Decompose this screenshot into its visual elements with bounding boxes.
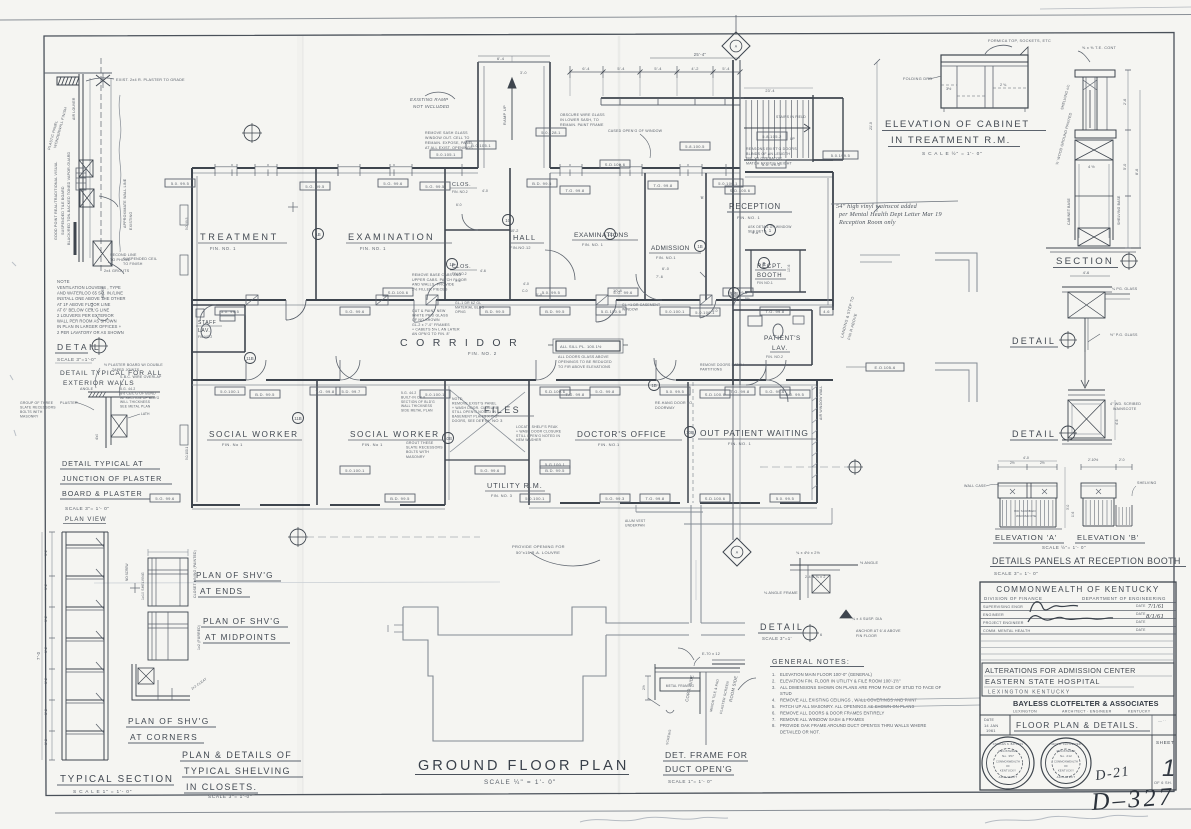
svg-text:DATE: DATE [1136,604,1146,608]
svg-text:REMAIN. PAINT FRAME: REMAIN. PAINT FRAME [560,123,604,127]
svg-text:PLAN OF SHV'G: PLAN OF SHV'G [196,571,274,580]
svg-text:1'-2: 1'-2 [44,584,48,590]
svg-text:½ ANGLE: ½ ANGLE [860,561,879,565]
svg-text:INSTALL ONE ABOVE THE OTHER: INSTALL ONE ABOVE THE OTHER [57,296,126,301]
svg-text:WALL PER ROOM AS SHOWN: WALL PER ROOM AS SHOWN [57,319,117,324]
svg-text:DOCTOR'S OFFICE: DOCTOR'S OFFICE [577,430,667,439]
svg-text:PLAN OF SHV'G: PLAN OF SHV'G [128,716,210,726]
svg-text:LAV.: LAV. [198,328,210,334]
svg-text:2x4 GROUTS: 2x4 GROUTS [104,269,130,273]
existing building outline below [403,607,689,635]
svg-text:SUSPENDED TILE BOARD: SUSPENDED TILE BOARD [61,186,65,235]
upper right wall to reception [813,159,833,161]
svg-text:REMOVE EXIST'G PANEL: REMOVE EXIST'G PANEL [452,401,497,405]
svg-text:5.0. 99.5: 5.0. 99.5 [776,496,795,501]
small crosses/targets in plan [292,202,294,212]
svg-text:1'-2: 1'-2 [44,647,48,653]
svg-text:1'-2: 1'-2 [44,616,48,622]
svg-text:1C: 1C [505,218,511,223]
svg-text:+ CABETS 5⅛ L AN LATER: + CABETS 5⅛ L AN LATER [412,327,460,331]
svg-text:FIN. NO 3: FIN. NO 3 [482,418,503,423]
svg-text:AT MIDPOINTS: AT MIDPOINTS [205,633,277,642]
svg-text:DETAIL: DETAIL [1012,336,1056,346]
svg-text:SCALE ¼" = 1'- 0": SCALE ¼" = 1'- 0" [484,779,557,786]
svg-text:FIN. NO. 1: FIN. NO. 1 [737,215,760,220]
svg-text:5.0. 99.5: 5.0. 99.5 [221,309,240,314]
svg-text:S.D.100.6: S.D.100.6 [605,162,626,167]
svg-text:11B: 11B [294,416,302,421]
svg-text:B½ CEIL'G OF BOND: B½ CEIL'G OF BOND [120,391,156,395]
svg-text:BOARD & PLASTER: BOARD & PLASTER [62,489,143,498]
svg-text:S.B.C. WIRE OVERLAP: S.B.C. WIRE OVERLAP [120,375,162,379]
svg-text:ELEVATION OF CABINET: ELEVATION OF CABINET [885,119,1030,130]
svg-text:5.G. 99.3: 5.G. 99.3 [605,496,625,501]
svg-text:DETAILED OR NOT.: DETAILED OR NOT. [780,730,820,735]
svg-text:5.0. 99.5: 5.0. 99.5 [171,181,190,186]
svg-text:SCALE 3"= 1'- 0": SCALE 3"= 1'- 0" [65,506,109,512]
svg-text:2½: 2½ [642,685,646,690]
svg-text:ELEVATION 'B': ELEVATION 'B' [1077,533,1139,542]
svg-text:AT 1F ABOVE FLOOR LINE: AT 1F ABOVE FLOOR LINE [57,302,111,307]
svg-text:5.G. 99.6: 5.G. 99.6 [480,468,500,473]
svg-text:3'-0: 3'-0 [712,309,718,313]
svg-text:STILL OPEN'G NOTED IN: STILL OPEN'G NOTED IN [452,410,496,414]
svg-text:REMOVE ALL DOORS & DOOR FRAMES: REMOVE ALL DOORS & DOOR FRAMES ENTIRELY [780,710,885,715]
corridor south wall [192,379,246,381]
svg-text:GROUT THESE: GROUT THESE [406,441,434,445]
svg-text:23'-4: 23'-4 [765,89,774,93]
blank ruled rows [980,640,1176,642]
svg-text:SCALE ½"= 1'- 0": SCALE ½"= 1'- 0" [1042,545,1086,550]
svg-text:OF: OF [1064,764,1068,768]
svg-text:PARTITIONS: PARTITIONS [700,367,723,371]
svg-text:NO SCREW: NO SCREW [125,563,129,581]
svg-text:5.0.105.1: 5.0.105.1 [436,152,456,157]
stamp: Charles N Bayless [982,737,1034,789]
leader to plaster note [86,78,114,81]
elevation A drawing [998,466,1057,468]
svg-text:FLOOR PLAN & DETAILS.: FLOOR PLAN & DETAILS. [1016,720,1139,730]
svg-text:10B: 10B [686,430,694,435]
social worker divider [316,380,318,505]
svg-text:SLATE RECESSORS: SLATE RECESSORS [406,446,443,450]
svg-text:21'-0: 21'-0 [869,122,873,130]
svg-text:7/1/61: 7/1/61 [1148,604,1164,610]
svg-text:TYPICAL SHELVING: TYPICAL SHELVING [184,766,291,776]
svg-text:2½ FILLER PIECES: 2½ FILLER PIECES [412,287,448,291]
doctor office wall [687,382,689,503]
ramp up arrow [508,78,516,88]
svg-text:WILL THICKNESS: WILL THICKNESS [120,400,151,404]
svg-text:4'-0: 4'-0 [523,282,529,286]
svg-text:DET. FRAME FOR: DET. FRAME FOR [665,750,748,760]
svg-text:8.: 8. [772,723,776,728]
svg-text:B.D. 99.5: B.D. 99.5 [255,392,275,397]
svg-text:GROUP OF THREE: GROUP OF THREE [20,401,54,405]
detail: elevation of cabinet [941,55,1028,108]
svg-text:1x2 (FURRED): 1x2 (FURRED) [197,625,201,650]
svg-text:+ WASH DOOR. CLOSURE: + WASH DOOR. CLOSURE [452,406,499,410]
svg-text:DEPARTMENT OF ENGINEERING: DEPARTMENT OF ENGINEERING [1082,596,1166,601]
svg-text:CLOS.: CLOS. [452,182,471,188]
svg-text:S.D.100.6: S.D.100.6 [388,290,409,295]
svg-text:ENGINEER: ENGINEER [983,613,1004,617]
svg-text:FIN. No 1: FIN. No 1 [362,442,383,447]
svg-text:PLAN OF SHV'G: PLAN OF SHV'G [203,617,281,626]
svg-text:METAL FRAMING: METAL FRAMING [666,684,695,688]
svg-text:SOCIAL WORKER: SOCIAL WORKER [209,430,299,439]
detail: plan of shelving at midpoints [148,612,188,660]
svg-text:5.0. 99.5: 5.0. 99.5 [786,392,805,397]
svg-text:No. 212: No. 212 [1060,754,1072,758]
svg-text:OPENINGS TO BE REDUCED: OPENINGS TO BE REDUCED [558,360,612,364]
svg-text:STAIRS IN FIELD: STAIRS IN FIELD [776,115,806,119]
svg-text:SCALE 3"= 1'-0": SCALE 3"= 1'-0" [208,794,252,800]
svg-text:LOCATE SHELF'S PEAK: LOCATE SHELF'S PEAK [516,425,558,429]
svg-text:DETAIL: DETAIL [57,342,101,352]
svg-text:1B: 1B [315,232,320,237]
svg-text:DETAIL: DETAIL [760,622,804,632]
svg-text:5.G. 44.2: 5.G. 44.2 [401,391,416,395]
project name box [982,663,1174,696]
svg-text:FORMICA TOP, SOCKETS, ETC: FORMICA TOP, SOCKETS, ETC [988,39,1051,43]
svg-text:FIN. NO. 1: FIN. NO. 1 [728,441,751,446]
svg-text:FIN. NO. 2: FIN. NO. 2 [468,351,497,356]
svg-text:5.8.105.2: 5.8.105.2 [762,134,782,139]
svg-text:1'-2: 1'-2 [44,678,48,684]
svg-text:OBSCURE WIRE GLASS: OBSCURE WIRE GLASS [560,113,605,117]
svg-text:6'-4: 6'-4 [582,66,590,71]
svg-text:5.0.100.1: 5.0.100.1 [345,468,365,473]
svg-text:REASONS EXIST'G DOORS: REASONS EXIST'G DOORS [746,147,797,151]
svg-text:1'-2: 1'-2 [44,550,48,556]
svg-text:ADMISSION: ADMISSION [651,245,690,252]
svg-text:— ··: — ·· [1158,718,1166,723]
svg-text:UPPER CABS. PATCH FLOOR: UPPER CABS. PATCH FLOOR [412,278,467,282]
svg-text:1'-2: 1'-2 [44,739,48,745]
svg-text:AT ENDS: AT ENDS [200,587,243,596]
elevation B drawing [1081,466,1132,468]
svg-text:FIN. No 1: FIN. No 1 [222,442,243,447]
svg-text:MATCH EXIST'G HEIGHT: MATCH EXIST'G HEIGHT [746,161,793,165]
corridor big arcs [336,356,360,380]
svg-text:½" P.G. GLASS: ½" P.G. GLASS [1110,333,1138,337]
svg-text:BASEMENT PLAN 3 X 7'-2": BASEMENT PLAN 3 X 7'-2" [452,415,499,419]
svg-text:No. 357: No. 357 [1002,754,1014,758]
existing stairs top right [744,97,813,99]
svg-text:AT 6" BELOW CEIL'G LINE: AT 6" BELOW CEIL'G LINE [57,307,110,312]
svg-text:DETAIL TYPICAL AT: DETAIL TYPICAL AT [62,459,143,468]
terrace steps below plan [636,511,703,513]
svg-text:SIDE METAL PLAN: SIDE METAL PLAN [401,409,433,413]
detail: exterior wall section (top-left) [44,72,112,74]
svg-text:5.G. 99.6: 5.G. 99.6 [383,181,403,186]
svg-text:6: 6 [820,633,822,637]
svg-text:EXAMINATIONS: EXAMINATIONS [574,232,629,239]
svg-text:10'-6: 10'-6 [787,264,791,272]
svg-text:2'-0: 2'-0 [1119,458,1125,462]
corridor passage down [690,505,692,623]
terrace wall top [601,97,843,99]
plus mark [130,587,140,589]
svg-text:COMMONWEALTH OF KENTUCKY: COMMONWEALTH OF KENTUCKY [996,585,1159,594]
louver leaders [99,196,118,207]
svg-text:T.G. 99.8: T.G. 99.8 [316,389,335,394]
svg-text:SHELVING: SHELVING [1137,481,1157,485]
svg-text:WALL THICKNESS: WALL THICKNESS [401,404,433,408]
svg-text:DOORS, SEE DET.: DOORS, SEE DET. [452,419,484,423]
svg-text:1C: 1C [607,232,613,237]
svg-text:CUT & PAINT NEW: CUT & PAINT NEW [412,309,446,313]
svg-text:11B: 11B [246,356,254,361]
bottom wall right wing [560,502,600,504]
svg-text:5.G. 44.2: 5.G. 44.2 [120,387,135,391]
svg-text:FIN. NO.1: FIN. NO.1 [656,256,676,260]
X brace lower [93,241,112,266]
svg-text:BOOTH: BOOTH [757,273,782,279]
svg-text:UP: UP [790,137,795,141]
svg-text:B.D. 99.5: B.D. 99.5 [390,496,410,501]
svg-text:GL +1 DR CASEMENT: GL +1 DR CASEMENT [622,303,660,307]
svg-text:4'-0: 4'-0 [482,189,488,193]
svg-text:RAMP UP: RAMP UP [503,105,507,125]
detail: duct angle frame (small) [790,564,858,566]
hatched jambs [246,295,258,305]
svg-text:FIN. NO. 3: FIN. NO. 3 [491,494,512,498]
svg-text:6.: 6. [772,710,776,715]
svg-text:5.G.100.6: 5.G.100.6 [601,309,622,314]
svg-text:AT CORNERS: AT CORNERS [130,732,198,742]
svg-text:ALTERATIONS FOR ADMISSION C: ALTERATIONS FOR ADMISSION CENTER [985,666,1136,675]
svg-text:OF NO SHOWN: OF NO SHOWN [412,318,440,322]
svg-text:SECTION: SECTION [1056,256,1114,267]
svg-text:GROUND FLOOR PLAN: GROUND FLOOR PLAN [418,758,629,774]
ramp shaft walls [477,62,479,168]
svg-text:BLINDS OF AN LENGTH: BLINDS OF AN LENGTH [746,152,790,156]
svg-text:TYPICAL SECTION: TYPICAL SECTION [60,774,174,785]
svg-text:T.G. 99.8: T.G. 99.8 [766,309,785,314]
svg-text:54" high vinyl wainscot added: 54" high vinyl wainscot added [836,203,918,210]
svg-text:GL-1 DR 6Z GL: GL-1 DR 6Z GL [455,301,481,305]
svg-text:8'-6: 8'-6 [1135,169,1139,175]
svg-text:DUCT OPEN'G: DUCT OPEN'G [665,764,733,774]
svg-text:GL-2 x 7'-0" FRAMES: GL-2 x 7'-0" FRAMES [412,323,450,327]
sheet column [1151,735,1153,790]
svg-text:WAINSCOTE: WAINSCOTE [1016,514,1036,518]
out-patient right wall [816,380,818,503]
svg-text:6'-0: 6'-0 [662,267,669,271]
svg-text:7'-0: 7'-0 [36,651,41,660]
svg-text:REGISTERED: REGISTERED [999,749,1018,753]
svg-text:1x10 SHELVING: 1x10 SHELVING [141,572,145,600]
fold line shading [302,36,304,795]
title block outer [980,582,1176,790]
centerline symbols [244,125,260,141]
svg-text:5.G. 99.5: 5.G. 99.5 [305,184,325,189]
svg-text:4'-2: 4'-2 [691,66,698,71]
svg-text:IN PLAN IN LARGER OFFICES +: IN PLAN IN LARGER OFFICES + [57,324,122,329]
svg-text:ALL SILL PL. 100.1½: ALL SILL PL. 100.1½ [560,344,602,349]
svg-text:LAV.: LAV. [772,345,788,352]
svg-text:4.6: 4.6 [823,309,830,314]
svg-text:1B: 1B [651,383,656,388]
svg-text:COMMONWEALTH: COMMONWEALTH [1054,760,1078,764]
svg-text:¾ x 4 SUSP. DIA: ¾ x 4 SUSP. DIA [852,617,883,621]
window tags on left wall [180,205,188,225]
svg-text:per Mental Health Dept Letter: per Mental Health Dept Letter Mar 19 [838,211,942,218]
svg-text:DIVISION OF FINANCE: DIVISION OF FINANCE [984,596,1042,601]
signatures [1030,602,1078,612]
svg-text:PROJECT ENGINEER: PROJECT ENGINEER [983,621,1024,625]
svg-text:SUPERVISING ENGR: SUPERVISING ENGR [983,605,1023,609]
svg-text:AND WATERLOO 65 SQ. IN./LINE: AND WATERLOO 65 SQ. IN./LINE [57,291,123,296]
svg-text:B.0.105.1: B.0.105.1 [471,143,491,148]
svg-text:REGISTERED: REGISTERED [1057,749,1076,753]
svg-text:RECPT.: RECPT. [757,264,783,270]
svg-text:LATH: LATH [141,412,150,416]
section diamond top [722,32,750,60]
svg-text:GENERAL NOTES:: GENERAL NOTES: [772,659,850,666]
svg-text:AIR WINDOW WALL: AIR WINDOW WALL [819,385,823,420]
svg-text:COMM. MENTAL HEALTH: COMM. MENTAL HEALTH [983,629,1031,633]
svg-text:2½: 2½ [1040,461,1045,465]
svg-text:JACK B. CLOTFELTER: JACK B. CLOTFELTER [1051,743,1081,746]
staff lav walls [192,304,245,306]
svg-text:WINDOW OUT. CELL TO: WINDOW OUT. CELL TO [425,136,469,140]
svg-text:5.8.100.5: 5.8.100.5 [685,144,705,149]
svg-text:TO FIR ABOVE ELEVATIONS: TO FIR ABOVE ELEVATIONS [558,365,611,369]
svg-text:3'-0: 3'-0 [520,71,527,75]
svg-text:SHEET: SHEET [1156,740,1174,745]
svg-text:5.0.100.1: 5.0.100.1 [425,392,445,397]
svg-text:B.D. 99.5: B.D. 99.5 [545,468,565,473]
top dimension line [570,71,740,73]
stamp: Jack B Clotfelter [1041,738,1091,788]
svg-text:KENTUCKY: KENTUCKY [1058,769,1074,773]
svg-text:ANGLE: ANGLE [80,387,94,391]
svg-text:ARCHITECT · ENGINEER: ARCHITECT · ENGINEER [1062,710,1112,714]
svg-text:2'-6: 2'-6 [1123,99,1127,105]
svg-text:B: B [763,261,766,266]
detail B drawing [1081,352,1089,388]
svg-text:3.: 3. [772,685,776,690]
svg-text:OUT PATIENT WAITING: OUT PATIENT WAITING [700,428,809,438]
svg-text:½ PLASTER BOARD W/ DOUBLE: ½ PLASTER BOARD W/ DOUBLE [104,363,163,367]
svg-text:REMOVE BASE CABS AND: REMOVE BASE CABS AND [412,273,462,277]
svg-text:2 PER LAVATORY OR AS SHOWN: 2 PER LAVATORY OR AS SHOWN [57,330,124,335]
paper top edge [0,15,1191,21]
svg-text:⅛ ANGLE FRAME: ⅛ ANGLE FRAME [764,591,798,595]
svg-text:BOLTS WITH: BOLTS WITH [20,410,43,414]
svg-text:SOCIAL WORKER: SOCIAL WORKER [350,430,440,439]
svg-text:FIN. NO.2: FIN. NO.2 [452,190,468,194]
svg-text:DATE: DATE [1136,628,1146,632]
svg-text:IN CLOSETS.: IN CLOSETS. [186,782,257,792]
svg-text:FRL W/ OPERATOR: FRL W/ OPERATOR [746,157,782,161]
svg-text:TO FINISH: TO FINISH [123,262,143,266]
svg-text:SHELVING BASE: SHELVING BASE [1117,195,1121,225]
svg-text:S.D.100.6: S.D.100.6 [705,496,726,501]
svg-text:COMMONWEALTH: COMMONWEALTH [996,760,1020,764]
svg-text:FIN.NO.2: FIN.NO.2 [198,335,212,339]
svg-text:FIN. NO. 1: FIN. NO. 1 [210,246,236,251]
svg-text:'B': 'B' [700,195,704,200]
svg-text:5.0.100.1: 5.0.100.1 [185,446,189,460]
svg-text:5.D. 99.7: 5.D. 99.7 [342,389,361,394]
svg-text:C-0: C-0 [522,289,528,293]
svg-text:5.0. 99.5: 5.0. 99.5 [542,290,561,295]
svg-text:8/1/61: 8/1/61 [1146,613,1164,620]
svg-text:NOT INCLUDED: NOT INCLUDED [413,104,450,109]
svg-text:AIR LOUVER: AIR LOUVER [72,97,76,120]
right side existing wall fragments [935,253,977,292]
svg-text:AND WALLS. PROVIDE: AND WALLS. PROVIDE [412,283,455,287]
svg-text:EXISTING RAMP: EXISTING RAMP [410,97,448,102]
svg-text:5.0.100.1: 5.0.100.1 [525,496,545,501]
svg-text:6'-0: 6'-0 [456,203,462,207]
room number circles [313,229,324,240]
svg-text:LEXINGTON: LEXINGTON [1013,710,1037,714]
svg-text:BAYLESS CLOTFELTER & ASSOCIATE: BAYLESS CLOTFELTER & ASSOCIATES [1013,699,1159,708]
svg-text:T.G. 99.8: T.G. 99.8 [566,392,585,397]
svg-text:PLAN & DETAILS OF: PLAN & DETAILS OF [182,750,292,760]
svg-text:REMOVE ALL EXISTING CEILINGS ,: REMOVE ALL EXISTING CEILINGS , WALL COVE… [780,698,917,703]
svg-text:5.G. 99.5: 5.G. 99.5 [425,184,445,189]
svg-text:CABINET BASE: CABINET BASE [1067,197,1071,225]
svg-text:5'-4: 5'-4 [617,66,625,71]
svg-text:5.G. 99.8: 5.G. 99.8 [595,389,615,394]
svg-text:5'-0: 5'-0 [1123,164,1127,170]
svg-text:E-70 x 12: E-70 x 12 [702,652,720,656]
svg-text:FIN NO.1: FIN NO.1 [757,281,773,285]
svg-text:DATE: DATE [984,718,995,722]
svg-text:ARCHITECT: ARCHITECT [1057,775,1076,779]
svg-text:+ WASH DOOR CLOSURE: + WASH DOOR CLOSURE [516,429,562,433]
svg-text:OPNG: OPNG [455,310,466,314]
svg-text:PROVIDE OAK FRAME AROUND DUCT: PROVIDE OAK FRAME AROUND DUCT OPEN'GS TH… [780,723,927,728]
svg-text:KENTUCKY: KENTUCKY [1128,710,1151,714]
svg-text:SLATE RECESSORS: SLATE RECESSORS [20,406,56,410]
bottom wall left wing (windows) [192,504,240,506]
svg-text:SCALE 3"= 1'- 0": SCALE 3"= 1'- 0" [994,571,1039,576]
floor plan row [1009,715,1011,735]
svg-text:REMOVE DOORS HATCH: REMOVE DOORS HATCH [700,363,744,367]
svg-text:STAFF: STAFF [198,320,216,326]
svg-text:5.G. 99.6: 5.G. 99.6 [345,309,365,314]
svg-text:BLACK/RED TON-BACKED TONED VAP: BLACK/RED TON-BACKED TONED VAPOR-GUARD [67,151,71,245]
paper bottom edge [55,809,1191,813]
svg-text:REMOVE ALL WINDOW SASH & FRAME: REMOVE ALL WINDOW SASH & FRAMES [780,717,864,722]
svg-text:EXAMINATION: EXAMINATION [348,232,435,242]
dimension tag boxes [165,179,195,187]
window openings in top wall [215,166,237,169]
svg-text:¾ x 4½ x 2½: ¾ x 4½ x 2½ [796,551,821,555]
svg-text:DETAIL: DETAIL [1012,429,1056,439]
svg-text:MATERIAL BLDG: MATERIAL BLDG [455,305,485,309]
svg-text:5.0.128.1: 5.0.128.1 [541,130,561,135]
svg-text:SECTION OF BLD'G: SECTION OF BLD'G [401,400,435,404]
svg-text:PLAN VIEW: PLAN VIEW [65,517,107,523]
svg-text:LEXINGTON KENTUCKY: LEXINGTON KENTUCKY [988,690,1071,696]
svg-text:FIN. NO. 1: FIN. NO. 1 [582,243,603,247]
svg-text:1'-6: 1'-6 [1071,512,1075,517]
svg-text:HALL: HALL [513,233,536,242]
stray marks left margin [12,262,16,266]
svg-text:4'-6: 4'-6 [480,269,486,273]
svg-text:DETAILS PANELS AT RECEPTION BO: DETAILS PANELS AT RECEPTION BOOTH [992,556,1181,566]
reception walls [745,171,833,173]
svg-text:AT ALL EXIST. OPENINGS: AT ALL EXIST. OPENINGS [425,146,473,150]
